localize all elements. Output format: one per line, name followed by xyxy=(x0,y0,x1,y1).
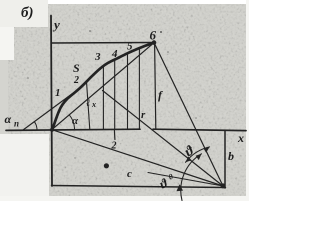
svg-text:n: n xyxy=(14,119,19,129)
lighter patches xyxy=(0,0,14,60)
theta arc arrowheads xyxy=(203,147,209,153)
pole dot xyxy=(221,183,226,188)
arrowheads xyxy=(27,30,225,191)
y-axis xyxy=(51,16,52,187)
svg-text:3: 3 xyxy=(94,51,101,63)
alpha_n arc xyxy=(34,122,37,130)
svg-text:c: c xyxy=(127,168,132,180)
ordinate 5 xyxy=(138,48,140,130)
svg-text:2: 2 xyxy=(111,141,117,152)
svg-text:2: 2 xyxy=(73,75,79,86)
theta arc (small, double arrows) xyxy=(186,147,210,162)
ordinate 2 xyxy=(102,67,104,130)
svg-text:б): б) xyxy=(21,5,33,21)
midpoint tick below axis xyxy=(113,130,116,140)
x-axis right segment xyxy=(153,129,246,130)
right vertical b line xyxy=(224,131,226,188)
alpha arc at O xyxy=(69,115,74,130)
svg-text:x: x xyxy=(237,131,244,145)
ordinate 1 xyxy=(87,83,90,130)
ray P to O xyxy=(52,130,223,186)
svg-text:r: r xyxy=(141,109,146,121)
bottom line of box xyxy=(52,186,226,188)
svg-text:ℓ: ℓ xyxy=(86,98,90,109)
scan grain xyxy=(8,4,248,196)
point 6 dot xyxy=(152,40,157,45)
short shallow segment at P xyxy=(148,173,223,187)
main curve (thick) xyxy=(52,43,154,131)
theta0 arc arrowheads xyxy=(196,154,202,160)
top horizontal line xyxy=(52,42,155,45)
ordinate 4 xyxy=(127,53,129,130)
alpha_n tangent line xyxy=(23,88,80,130)
svg-text:S: S xyxy=(73,61,80,75)
svg-text:y: y xyxy=(52,17,60,32)
svg-text:5: 5 xyxy=(127,41,133,53)
svg-text:4: 4 xyxy=(111,48,118,60)
svg-text:6: 6 xyxy=(150,28,157,43)
svg-text:b: b xyxy=(228,149,234,163)
svg-text:x: x xyxy=(91,100,96,109)
origin blob xyxy=(50,128,54,132)
speckles xyxy=(160,31,162,33)
svg-text:α: α xyxy=(5,112,12,126)
paper background xyxy=(0,0,249,201)
ray P to S junction xyxy=(103,91,224,187)
svg-text:α: α xyxy=(72,115,79,127)
ordinate 3 xyxy=(114,60,116,130)
chord O-6 xyxy=(52,43,154,130)
ink blob xyxy=(104,163,109,168)
x-axis left segment xyxy=(6,129,140,130)
theta0 arc (big) xyxy=(181,154,202,201)
ray P to 6 xyxy=(154,43,223,187)
f ordinate under 6 xyxy=(155,43,156,129)
svg-text:1: 1 xyxy=(55,87,61,99)
